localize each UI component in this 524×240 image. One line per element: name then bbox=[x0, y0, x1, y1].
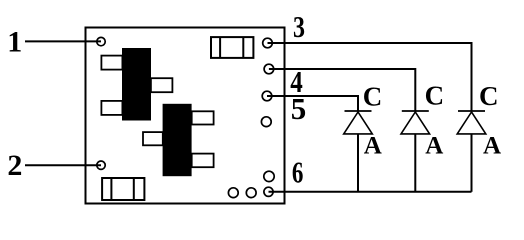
PCB board outline bbox=[86, 28, 285, 204]
pad (unconnected, right column) bbox=[261, 117, 271, 127]
diode D2 cathode bar bbox=[402, 110, 429, 112]
diode D3 triangle bbox=[457, 112, 486, 134]
wire D3 anode to bus bbox=[471, 134, 473, 192]
pad 1 bbox=[97, 37, 105, 45]
svg-text:5: 5 bbox=[291, 91, 307, 126]
svg-text:3: 3 bbox=[293, 9, 305, 44]
resistor R1 (top chip resistor) bbox=[211, 37, 253, 58]
svg-text:1: 1 bbox=[7, 25, 22, 58]
wire terminal 1 lead bbox=[25, 40, 101, 42]
wire pad5 to diode D1 top bbox=[267, 96, 358, 111]
pad 3 bbox=[263, 38, 273, 48]
pad (bottom row left) bbox=[228, 188, 238, 198]
resistor R2 (bottom chip resistor) bbox=[102, 178, 144, 200]
wire D1 anode to bus bbox=[357, 134, 359, 192]
diode D2 triangle bbox=[401, 112, 430, 134]
wire pad3 to diode D3 top bbox=[268, 43, 472, 111]
wire terminal 2 lead bbox=[25, 164, 101, 166]
diode D1 triangle bbox=[344, 112, 373, 134]
transistor Q1 bbox=[101, 48, 172, 121]
pad 6 bbox=[264, 187, 273, 196]
svg-text:A: A bbox=[425, 132, 443, 159]
transistor Q2 bbox=[143, 104, 214, 176]
svg-text:A: A bbox=[364, 132, 382, 159]
svg-text:C: C bbox=[425, 81, 445, 111]
pad (bottom row middle) bbox=[246, 188, 256, 198]
svg-text:A: A bbox=[483, 132, 501, 159]
wire pad4 to diode D2 top bbox=[269, 69, 415, 111]
wire pad6 bottom bus bbox=[269, 191, 472, 193]
svg-text:6: 6 bbox=[292, 155, 304, 190]
pad (unconnected, above pad 6) bbox=[264, 171, 274, 181]
diode D1 cathode bar bbox=[345, 110, 372, 112]
diode D3 cathode bar bbox=[458, 110, 485, 112]
pad 5 bbox=[262, 91, 272, 101]
pad 4 bbox=[264, 64, 274, 74]
svg-text:C: C bbox=[479, 81, 499, 111]
wire D2 anode to bus bbox=[414, 134, 416, 192]
svg-text:C: C bbox=[363, 81, 383, 111]
svg-text:2: 2 bbox=[7, 149, 22, 182]
pad 2 bbox=[97, 161, 105, 169]
